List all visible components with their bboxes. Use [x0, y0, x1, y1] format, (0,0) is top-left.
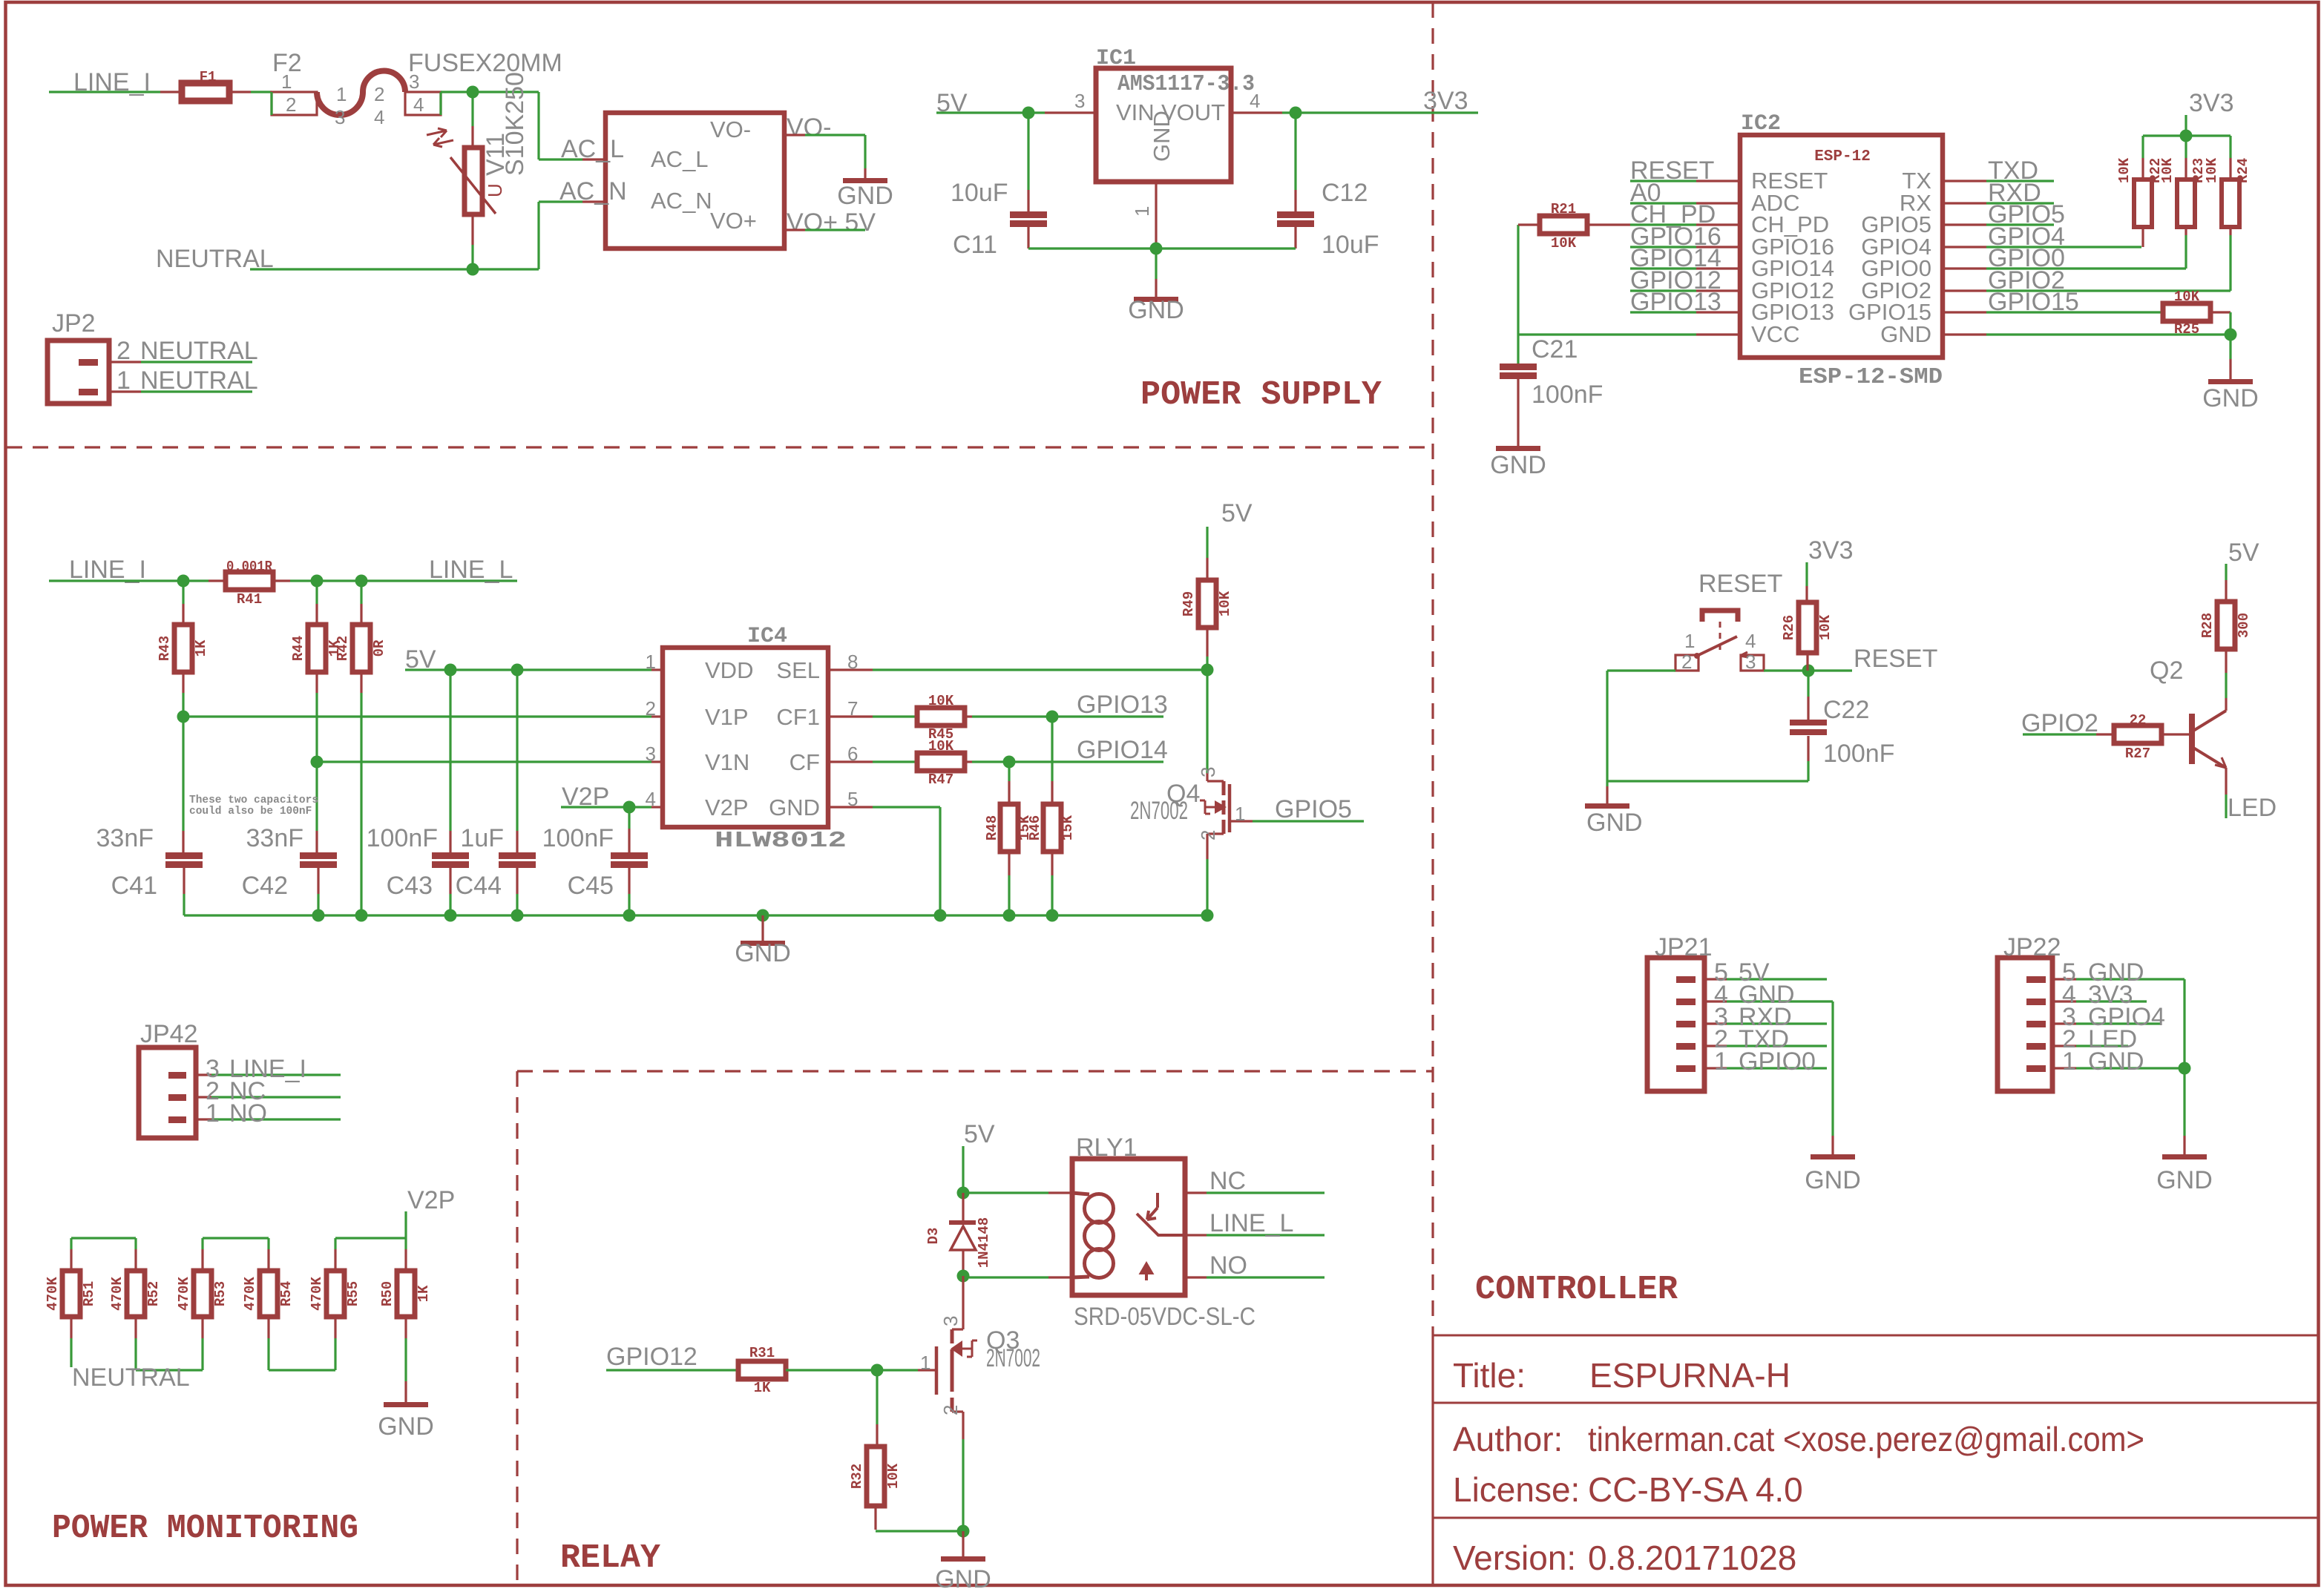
- svg-text:V2P: V2P: [407, 1186, 455, 1214]
- svg-text:R32: R32: [849, 1464, 865, 1489]
- svg-text:RLY1: RLY1: [1076, 1134, 1138, 1162]
- svg-text:NC: NC: [1209, 1167, 1246, 1195]
- svg-text:3V3: 3V3: [1423, 87, 1468, 115]
- svg-text:0.001R: 0.001R: [226, 559, 273, 575]
- svg-text:10K: 10K: [928, 693, 954, 709]
- svg-text:Version:: Version:: [1453, 1539, 1576, 1577]
- svg-text:VO+ 5V: VO+ 5V: [787, 208, 876, 237]
- svg-text:GPIO12: GPIO12: [606, 1343, 697, 1371]
- svg-text:8: 8: [847, 651, 858, 673]
- svg-text:1K: 1K: [416, 1285, 432, 1302]
- svg-text:33nF: 33nF: [96, 824, 154, 852]
- svg-text:GND: GND: [1880, 321, 1931, 347]
- svg-text:AC_L: AC_L: [561, 135, 624, 163]
- svg-text:10K: 10K: [2159, 157, 2176, 183]
- svg-text:IC2: IC2: [1741, 111, 1781, 136]
- svg-text:JP22: JP22: [2003, 933, 2061, 961]
- svg-text:3: 3: [409, 70, 419, 93]
- svg-text:R42: R42: [335, 636, 351, 661]
- svg-text:GND: GND: [378, 1412, 434, 1441]
- svg-text:ESP-12-SMD: ESP-12-SMD: [1799, 364, 1943, 390]
- svg-text:1K: 1K: [754, 1380, 771, 1396]
- svg-text:SEL: SEL: [776, 657, 820, 683]
- svg-text:C22: C22: [1823, 696, 1869, 724]
- svg-text:NO: NO: [1209, 1251, 1247, 1280]
- svg-text:VO+: VO+: [710, 208, 757, 234]
- svg-text:R27: R27: [2125, 746, 2150, 762]
- svg-text:2N7002: 2N7002: [1130, 797, 1188, 825]
- svg-text:100nF: 100nF: [1532, 381, 1603, 409]
- svg-text:15K: 15K: [1060, 815, 1076, 840]
- svg-text:U: U: [484, 183, 506, 197]
- svg-text:LINE_L: LINE_L: [429, 556, 513, 584]
- svg-text:NEUTRAL: NEUTRAL: [140, 366, 258, 395]
- svg-text:1: 1: [1131, 206, 1153, 217]
- svg-text:F1: F1: [200, 69, 217, 85]
- svg-text:GND: GND: [2088, 1047, 2144, 1076]
- svg-text:LINE_L: LINE_L: [1209, 1209, 1293, 1237]
- svg-text:GND: GND: [837, 182, 893, 210]
- svg-text:4: 4: [646, 788, 656, 810]
- svg-text:2N7002: 2N7002: [986, 1344, 1040, 1372]
- svg-text:1uF: 1uF: [460, 824, 504, 852]
- svg-text:4: 4: [413, 93, 424, 116]
- svg-text:R43: R43: [157, 636, 173, 661]
- svg-text:5V: 5V: [2228, 539, 2259, 567]
- svg-text:1N4148: 1N4148: [976, 1217, 992, 1268]
- svg-text:R21: R21: [1551, 201, 1576, 217]
- svg-text:JP42: JP42: [140, 1020, 198, 1048]
- svg-text:GPIO15: GPIO15: [1988, 288, 2079, 316]
- svg-text:4: 4: [1745, 630, 1756, 652]
- svg-text:C44: C44: [456, 872, 502, 900]
- svg-text:7: 7: [847, 697, 858, 720]
- svg-text:V1P: V1P: [705, 704, 749, 730]
- svg-text:470K: 470K: [309, 1277, 325, 1311]
- svg-text:4: 4: [374, 106, 384, 128]
- svg-text:IC1: IC1: [1096, 46, 1136, 71]
- svg-text:10uF: 10uF: [1322, 231, 1379, 259]
- svg-text:could also be 100nF: could also be 100nF: [189, 806, 312, 817]
- svg-text:470K: 470K: [109, 1277, 125, 1311]
- svg-text:4: 4: [1250, 90, 1260, 112]
- svg-text:GND: GND: [2202, 384, 2259, 412]
- svg-text:CF1: CF1: [776, 704, 820, 730]
- svg-text:GPIO13: GPIO13: [1630, 288, 1721, 316]
- svg-text:100nF: 100nF: [1823, 740, 1894, 768]
- svg-text:FUSEX20MM: FUSEX20MM: [408, 49, 562, 77]
- svg-text:1: 1: [646, 651, 656, 673]
- svg-text:R55: R55: [345, 1281, 361, 1306]
- svg-text:GND: GND: [935, 1565, 991, 1589]
- svg-text:These two capacitors: These two capacitors: [189, 794, 318, 806]
- svg-text:C43: C43: [387, 872, 433, 900]
- svg-text:NO: NO: [229, 1099, 267, 1128]
- svg-text:R48: R48: [984, 815, 1000, 840]
- svg-text:R52: R52: [145, 1281, 162, 1306]
- svg-text:RELAY: RELAY: [560, 1539, 660, 1577]
- svg-text:2: 2: [116, 337, 131, 365]
- svg-text:1: 1: [1235, 803, 1245, 825]
- svg-text:VO-: VO-: [787, 113, 831, 142]
- svg-text:1K: 1K: [193, 639, 209, 657]
- svg-text:AC_L: AC_L: [651, 146, 709, 172]
- svg-text:470K: 470K: [242, 1277, 258, 1311]
- svg-text:2: 2: [286, 93, 296, 116]
- svg-text:SRD-05VDC-SL-C: SRD-05VDC-SL-C: [1074, 1303, 1255, 1331]
- svg-text:C45: C45: [568, 872, 614, 900]
- svg-text:5: 5: [847, 788, 858, 810]
- svg-text:1: 1: [1714, 1047, 1728, 1076]
- svg-text:33nF: 33nF: [246, 824, 304, 852]
- svg-text:IC4: IC4: [747, 624, 787, 649]
- svg-text:GND: GND: [2156, 1166, 2213, 1194]
- svg-text:AC_N: AC_N: [651, 188, 712, 214]
- svg-text:1: 1: [920, 1352, 930, 1374]
- svg-text:2: 2: [939, 1405, 962, 1415]
- svg-text:R28: R28: [2199, 613, 2216, 638]
- svg-text:1: 1: [2062, 1047, 2076, 1076]
- svg-text:AMS1117-3.3: AMS1117-3.3: [1117, 71, 1255, 97]
- svg-text:ESP-12: ESP-12: [1814, 148, 1871, 165]
- svg-text:C21: C21: [1532, 335, 1578, 363]
- svg-text:10K: 10K: [1551, 235, 1577, 251]
- svg-text:10K: 10K: [2174, 289, 2200, 305]
- svg-text:C11: C11: [953, 231, 997, 259]
- svg-text:2: 2: [374, 83, 384, 105]
- svg-text:1: 1: [336, 83, 347, 105]
- svg-text:GND: GND: [1586, 809, 1643, 837]
- svg-text:License:: License:: [1453, 1470, 1580, 1509]
- svg-text:C12: C12: [1322, 179, 1368, 207]
- svg-text:VCC: VCC: [1751, 321, 1799, 347]
- svg-text:R54: R54: [278, 1281, 295, 1306]
- svg-text:RESET: RESET: [1698, 570, 1782, 598]
- svg-text:R47: R47: [928, 772, 953, 788]
- svg-text:3V3: 3V3: [1808, 536, 1854, 565]
- svg-text:RESET: RESET: [1854, 645, 1937, 673]
- svg-text:0.8.20171028: 0.8.20171028: [1588, 1539, 1796, 1577]
- svg-text:Title:: Title:: [1453, 1356, 1526, 1395]
- svg-text:R25: R25: [2174, 321, 2199, 338]
- svg-text:GND: GND: [769, 794, 820, 820]
- svg-text:470K: 470K: [176, 1277, 192, 1311]
- svg-text:D3: D3: [925, 1228, 942, 1245]
- svg-text:AC_N: AC_N: [559, 177, 627, 205]
- svg-text:NEUTRAL: NEUTRAL: [140, 337, 258, 365]
- svg-text:5V: 5V: [964, 1120, 995, 1148]
- svg-text:R46: R46: [1027, 815, 1043, 840]
- svg-text:VO-: VO-: [710, 116, 751, 142]
- svg-text:1: 1: [1684, 630, 1695, 652]
- svg-text:C42: C42: [242, 872, 288, 900]
- svg-text:3: 3: [335, 106, 345, 128]
- svg-text:GPIO2: GPIO2: [2021, 709, 2098, 737]
- svg-text:1: 1: [116, 366, 131, 395]
- svg-text:ESPURNA-H: ESPURNA-H: [1589, 1356, 1790, 1395]
- svg-text:GPIO13: GPIO13: [1077, 691, 1168, 719]
- svg-text:6: 6: [847, 743, 858, 765]
- svg-text:R44: R44: [290, 636, 306, 661]
- svg-text:2: 2: [646, 697, 656, 720]
- svg-text:3: 3: [939, 1316, 962, 1326]
- svg-text:R24: R24: [2235, 158, 2251, 183]
- svg-text:10K: 10K: [885, 1463, 902, 1489]
- svg-text:3: 3: [646, 743, 656, 765]
- svg-text:GND: GND: [1128, 296, 1184, 324]
- svg-text:10uF: 10uF: [951, 179, 1008, 207]
- svg-text:10K: 10K: [1817, 614, 1834, 640]
- svg-text:1: 1: [206, 1099, 220, 1128]
- svg-text:10K: 10K: [2204, 157, 2220, 183]
- svg-text:GPIO14: GPIO14: [1077, 736, 1168, 764]
- svg-text:POWER MONITORING: POWER MONITORING: [52, 1510, 358, 1547]
- svg-text:R41: R41: [237, 591, 262, 608]
- svg-text:100nF: 100nF: [542, 824, 614, 852]
- svg-text:R50: R50: [379, 1281, 395, 1306]
- svg-text:CONTROLLER: CONTROLLER: [1475, 1271, 1678, 1309]
- svg-text:GND: GND: [1149, 111, 1175, 162]
- svg-text:3: 3: [1074, 90, 1085, 112]
- svg-text:GND: GND: [735, 939, 791, 967]
- svg-text:GPIO5: GPIO5: [1275, 795, 1352, 823]
- svg-text:LINE_I: LINE_I: [69, 556, 146, 584]
- svg-text:LED: LED: [2228, 794, 2277, 822]
- svg-text:tinkerman.cat <xose.perez@gmai: tinkerman.cat <xose.perez@gmail.com>: [1588, 1420, 2144, 1458]
- svg-text:V2P: V2P: [705, 794, 749, 820]
- svg-text:3V3: 3V3: [2189, 89, 2234, 117]
- svg-text:R31: R31: [749, 1345, 775, 1361]
- svg-text:2: 2: [1681, 651, 1692, 673]
- svg-text:JP21: JP21: [1655, 933, 1713, 961]
- svg-text:C41: C41: [111, 872, 157, 900]
- svg-text:3: 3: [1197, 767, 1219, 777]
- svg-text:0R: 0R: [371, 639, 387, 657]
- svg-text:CC-BY-SA 4.0: CC-BY-SA 4.0: [1588, 1470, 1803, 1509]
- svg-text:HLW8012: HLW8012: [715, 828, 847, 854]
- svg-text:R26: R26: [1781, 615, 1797, 640]
- svg-text:3: 3: [1745, 651, 1756, 673]
- svg-text:GND: GND: [1490, 451, 1546, 479]
- svg-text:V1N: V1N: [705, 749, 749, 775]
- svg-text:10K: 10K: [1217, 590, 1233, 616]
- svg-text:NEUTRAL: NEUTRAL: [72, 1363, 190, 1392]
- svg-text:S10K250: S10K250: [501, 72, 529, 176]
- svg-text:5V: 5V: [1221, 499, 1253, 527]
- svg-text:1: 1: [281, 70, 292, 93]
- svg-text:10K: 10K: [2116, 157, 2133, 183]
- svg-text:10K: 10K: [928, 738, 954, 754]
- svg-text:22: 22: [2130, 712, 2147, 728]
- svg-text:Q2: Q2: [2150, 657, 2183, 685]
- svg-text:R51: R51: [81, 1281, 97, 1306]
- svg-text:300: 300: [2236, 613, 2252, 638]
- svg-text:VDD: VDD: [705, 657, 753, 683]
- svg-text:Author:: Author:: [1453, 1420, 1563, 1458]
- svg-text:GPIO0: GPIO0: [1739, 1047, 1816, 1076]
- svg-text:JP2: JP2: [52, 309, 96, 338]
- svg-text:POWER SUPPLY: POWER SUPPLY: [1140, 376, 1382, 414]
- svg-text:470K: 470K: [45, 1277, 61, 1311]
- svg-text:R53: R53: [212, 1281, 229, 1306]
- svg-text:100nF: 100nF: [367, 824, 438, 852]
- svg-text:GND: GND: [1805, 1166, 1861, 1194]
- svg-text:CF: CF: [790, 749, 820, 775]
- svg-text:R49: R49: [1181, 591, 1197, 616]
